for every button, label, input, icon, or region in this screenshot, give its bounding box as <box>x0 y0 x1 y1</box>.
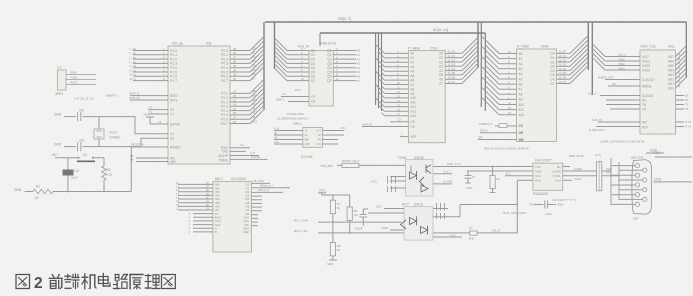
CAN transceiver U10 PCA82C250 <box>533 159 563 196</box>
wire crystal to X1 <box>99 117 168 134</box>
ground GND top right <box>653 151 692 157</box>
wire bus vertical V2 (data to latch) <box>274 22 276 69</box>
wire U1 EA tied high <box>143 113 168 125</box>
caption figure title <box>16 274 175 293</box>
label DB9 pin nets <box>552 153 612 202</box>
wire U1 P0 bus fan to DB <box>230 37 264 81</box>
wire RX opto left rows <box>368 204 404 230</box>
resistor R5 <box>490 166 501 193</box>
wire ADC analog input rows <box>176 181 213 211</box>
wire U1 ALE <box>230 151 259 156</box>
wire ADC data rows right <box>251 179 290 225</box>
EPROM U4 27256 <box>408 46 445 142</box>
wire latch LE <box>281 92 309 96</box>
capacitor C5 1000pF <box>355 209 368 231</box>
wire U1 RD WR stubs <box>130 154 168 162</box>
wire CAN controller right stubs <box>676 94 692 129</box>
microcontroller U1 8031 <box>163 42 230 165</box>
wire Vref stub <box>563 179 572 181</box>
wire EPROM data fan to DB <box>445 37 478 83</box>
resistor R7 <box>330 200 341 214</box>
wire CANH to DB9 <box>602 158 611 205</box>
optocoupler U8 6N137 TX <box>398 156 433 196</box>
wire latch input fan <box>275 38 310 81</box>
pushbutton K1 <box>77 153 104 161</box>
wire RAM address fan <box>481 36 516 115</box>
label CAN controller note <box>600 140 644 144</box>
wire CAN controller control rows <box>588 91 640 109</box>
capacitor C3 22uF <box>63 158 79 192</box>
wire CAN controller power rows <box>592 44 640 71</box>
wire CAN controller RST <box>589 127 640 133</box>
wire ADC control stubs left <box>189 213 213 234</box>
wire CANL <box>563 176 597 181</box>
capacitor C4 <box>465 171 476 190</box>
wire CANL to DB9 <box>602 162 619 200</box>
wire RAM OE <box>480 129 517 133</box>
node D12 label <box>295 88 301 92</box>
wire Rs stub <box>563 166 570 168</box>
wire U1 port P1 rows <box>130 47 169 81</box>
wire latch output rows <box>333 47 360 83</box>
wire EPROM address fan <box>376 45 409 117</box>
wire RX opto right rows <box>433 209 462 238</box>
crystal CLK1 12MHz <box>94 117 121 147</box>
wire CAN controller AD fan to DB <box>676 46 687 88</box>
wire RAM WE <box>478 135 517 139</box>
resistor R8 <box>347 207 358 220</box>
wire EPROM CE ground <box>362 122 408 126</box>
wire DB9 pin rows <box>611 166 643 205</box>
latch U2 74LS373 <box>298 42 336 107</box>
ground GND right <box>653 178 692 182</box>
connector J2 DB9 CAN <box>631 156 651 221</box>
wire CAN controller INT <box>592 118 640 122</box>
wire EPROM OE <box>390 118 408 122</box>
wire bus vertical CAN controller left <box>591 22 593 95</box>
wire U1 RXD TXD stubs <box>230 143 250 151</box>
wire TX opto left rows <box>371 177 406 189</box>
wire RAM data fan to DB <box>557 35 589 83</box>
inductor L1 filter choke <box>597 162 602 191</box>
wire CANH <box>563 167 597 171</box>
wire bus vertical CAN controller AD right <box>685 22 687 78</box>
resistor R1 1k <box>33 185 53 200</box>
optocoupler U9 6N137 RX <box>401 203 434 241</box>
capacitor bypass RX opto <box>437 203 445 219</box>
wire RESET to U1 <box>131 143 168 148</box>
resistor R6 560 <box>342 159 406 168</box>
power +5V reset <box>51 153 78 158</box>
wire CAN controller MODE <box>608 82 640 86</box>
capacitor C2 27p <box>54 139 99 152</box>
resistor R2 <box>102 158 113 192</box>
wire TX opto right rows <box>433 170 452 184</box>
capacitor bypass TX opto <box>388 176 396 192</box>
label GND 0525 note <box>569 154 584 158</box>
resistor R10 562 <box>469 205 517 241</box>
wire TXD net to opto <box>320 164 342 168</box>
wire EPROM VPP <box>400 132 408 136</box>
wire address bus AD top <box>320 28 485 46</box>
connector J1 3PIN <box>55 66 117 101</box>
label RAM part note <box>484 147 529 151</box>
wire XCVR GND row <box>467 170 533 172</box>
wire latch OE ground <box>276 98 309 102</box>
RAM U5 6264 <box>517 45 557 142</box>
wire U1 T0 T1 <box>148 106 168 114</box>
wire crystal to X2 <box>99 138 168 146</box>
ground rail reset <box>14 188 33 192</box>
wire bus vertical EPROM data to DB <box>477 22 479 68</box>
wire bus vertical RAM data to DB <box>587 22 589 70</box>
wire U1 PSEN <box>230 155 268 159</box>
power VCC RX divider <box>318 188 350 207</box>
wire reset rail <box>53 147 131 192</box>
wire CAN controller CLKOUT <box>598 75 640 79</box>
wire data bus DB top <box>265 17 686 22</box>
capacitor C6 104 <box>529 201 563 217</box>
wire RXD3 net <box>294 220 470 233</box>
ADC U7 ADC0809 <box>213 177 252 252</box>
resistor R9 <box>327 222 341 266</box>
wire U1 INT0 INT1 <box>130 92 169 100</box>
wire bus vertical RAM address <box>481 22 485 111</box>
ground GND under controller <box>646 149 664 154</box>
oscillator module U3 DY2164 <box>274 112 345 159</box>
wire CAN RxD loop <box>460 180 533 217</box>
wire U1 P2 bus fan <box>230 79 264 123</box>
CAN controller U6 SJA1000 <box>640 45 676 135</box>
wire RXD1 net <box>294 214 401 223</box>
label OUT CAN PORT <box>503 211 526 215</box>
wire RAM CS with jumper <box>479 122 517 128</box>
wire XCVR VCC row <box>505 172 533 176</box>
wire bus vertical EPROM address bundle <box>376 33 382 111</box>
capacitor C1 27p <box>54 109 99 122</box>
wire bus vertical V1 (P0 data to DB) <box>263 22 265 110</box>
wire CAN TxD net <box>433 162 533 167</box>
